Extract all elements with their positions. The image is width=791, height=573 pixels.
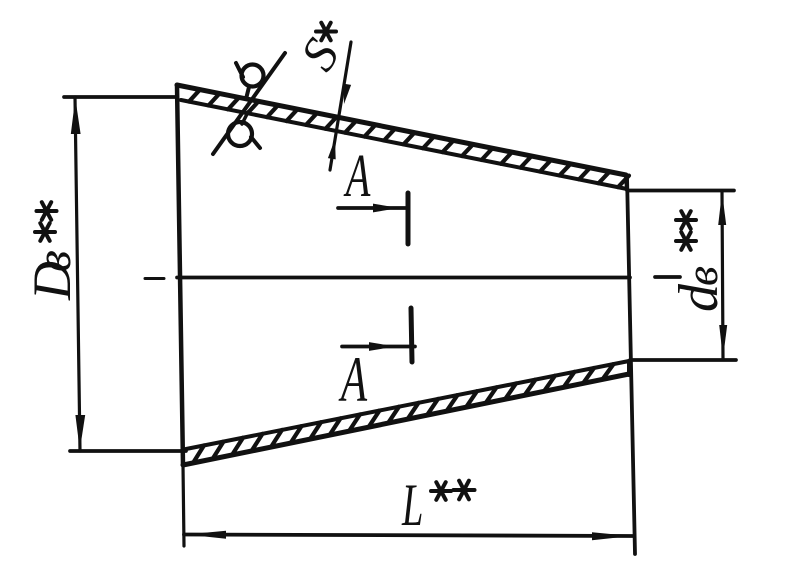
svg-text:A: A [338, 343, 368, 415]
svg-text:в: в [25, 250, 81, 272]
svg-text:d: d [668, 283, 730, 312]
svg-text:L: L [401, 471, 423, 538]
svg-text:A: A [343, 143, 370, 210]
svg-text:в: в [676, 266, 727, 286]
